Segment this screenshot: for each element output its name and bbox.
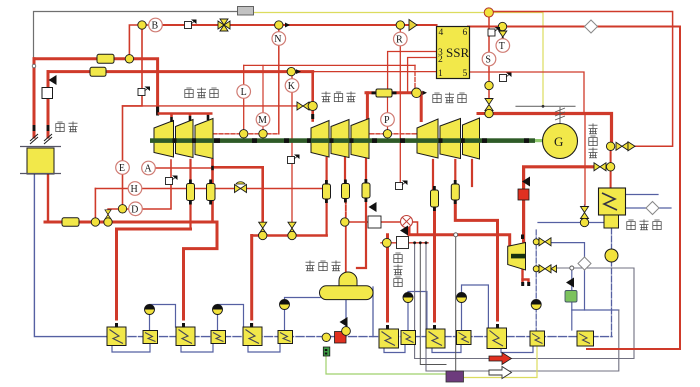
wire SSR pin6 line — [468, 27, 680, 350]
wire K column — [291, 72, 293, 236]
label LP cylinder 低压缸 — [433, 92, 466, 102]
wire main steam line 1 — [34, 59, 158, 112]
node yellow line junction circle — [484, 8, 493, 17]
crossover restrictor box — [372, 89, 397, 97]
gland seal circle and square — [382, 237, 427, 249]
wire aux line A red-arrow path — [415, 243, 634, 359]
node E — [116, 161, 130, 175]
deaerator dome — [339, 272, 357, 286]
LP turbine section3 — [463, 118, 480, 159]
wire condenser drain valve column — [584, 205, 586, 223]
node M — [256, 113, 270, 127]
wire drain heater5 to heater6 — [248, 344, 280, 353]
wire T branch column — [502, 27, 504, 41]
node A junction tick — [211, 166, 214, 170]
wire SSR pin5 line — [468, 72, 584, 114]
check triangle LP bypass — [522, 177, 530, 187]
svg-text:S: S — [485, 55, 491, 66]
MP extraction box sect1 — [323, 180, 331, 203]
MP extraction box sect2 — [342, 180, 350, 203]
wire E column — [123, 25, 143, 209]
wire yellow signal top — [253, 13, 543, 107]
wire deaerator downcomer to feed pump — [345, 299, 347, 331]
node junction main1 — [125, 55, 133, 63]
svg-text:A: A — [144, 164, 152, 175]
node valve circle 2 — [288, 231, 296, 239]
check triangle makeup — [566, 278, 574, 288]
wire B sample riser — [129, 25, 155, 59]
wire pump2 discharge loop — [218, 305, 244, 331]
node yellow-ground junction dot — [542, 105, 545, 108]
plant steam X valve — [341, 202, 413, 236]
wire LP sect2 extraction column — [454, 160, 456, 184]
label plant steam 厂用汽 vertical — [394, 253, 403, 287]
node R — [394, 32, 408, 46]
valve pair gen seal — [606, 142, 635, 151]
wire LP stub left — [478, 112, 489, 115]
label MP cylinder 中压缸 — [322, 91, 356, 101]
diamond pin6 line — [584, 20, 597, 33]
wire heater7 steam pipe — [386, 235, 389, 329]
drain sq K column — [288, 155, 300, 164]
wire BFPT exhaust hook — [521, 270, 523, 283]
wire condenser outlet to valve — [538, 222, 604, 224]
svg-text:P: P — [384, 115, 390, 126]
wire drain heater1 to heater2 — [112, 344, 150, 353]
wire D riser from HP — [141, 160, 171, 209]
wire HP section2 extraction column — [189, 160, 191, 229]
heater 12 — [530, 331, 545, 346]
heater 2 — [143, 331, 158, 344]
wire LP admission column — [488, 13, 490, 102]
wire gland supply to LP junction — [414, 65, 416, 88]
node B — [149, 18, 163, 32]
node A — [142, 161, 156, 175]
wire LP exhaust thick — [524, 167, 595, 241]
MP admission valve circle — [297, 101, 317, 119]
LP turbine section2 — [440, 119, 461, 159]
heater 5 — [243, 327, 262, 346]
node LP valve lower circle — [485, 109, 493, 117]
node pin6 junction — [498, 22, 506, 30]
MP extraction box sect3 — [362, 179, 370, 202]
wire B line top — [156, 24, 437, 26]
drain sq HP column — [166, 176, 178, 185]
wire gen seal valve dashed link — [610, 146, 612, 167]
LP extraction box B — [451, 180, 459, 204]
node valve circle 1 — [259, 231, 267, 239]
valve pair BFPT V2 — [533, 265, 556, 273]
node header junction circle — [454, 233, 458, 237]
wire N column — [278, 25, 280, 134]
node crossover junction circle — [412, 88, 422, 98]
heater 6 — [278, 331, 293, 344]
wire condenser right stub2 with diamond — [625, 207, 671, 209]
svg-text:T: T — [499, 41, 505, 52]
valve X main steam stop — [218, 19, 230, 31]
label generator 发电机 vertical — [589, 123, 598, 157]
label deaerator 除氧器 — [306, 260, 341, 270]
heater 13 — [577, 331, 594, 346]
wire MP exhaust riser — [366, 93, 369, 121]
LP extraction box A — [431, 186, 439, 211]
wire condensate pump column — [611, 228, 613, 337]
pump 3 — [280, 300, 290, 310]
node L — [237, 85, 251, 99]
wire R column — [399, 25, 401, 185]
condensate pump circle — [605, 249, 618, 262]
wire yellow drain heater12 to purple box — [464, 346, 538, 378]
HP turbine section3 — [195, 119, 213, 159]
condenser body — [599, 188, 626, 228]
heater 7 — [379, 329, 399, 348]
wire drain heater11 to heater12 — [501, 346, 533, 353]
pump 5 — [457, 293, 467, 303]
svg-text:2: 2 — [438, 55, 443, 65]
node frame junction circle — [32, 64, 36, 68]
restrictor box main line 1 — [97, 54, 114, 63]
pump 1 — [145, 305, 155, 315]
makeup green box — [565, 291, 577, 303]
wire extraction2 to heater3 — [184, 222, 218, 327]
wire drain heater3 to heater4 — [181, 344, 213, 353]
heater 8 — [401, 331, 416, 345]
wire L column — [243, 65, 245, 133]
wire cold reheat main — [45, 221, 217, 224]
wire reheat riser 2 — [47, 72, 50, 137]
svg-text:H: H — [131, 184, 138, 195]
drain sq with arrow B line — [185, 20, 197, 29]
svg-text:5: 5 — [463, 69, 468, 79]
svg-text:N: N — [274, 34, 281, 45]
wire shaft gland dashes HP-MP — [213, 133, 279, 135]
SSR block — [437, 27, 470, 80]
wire deaerator riser from heater7 side — [372, 287, 374, 337]
svg-text:E: E — [119, 163, 125, 174]
wire LP sect1 extraction column — [432, 160, 434, 190]
triangle into SSR — [409, 20, 417, 31]
wire gland header to MP valve — [123, 105, 300, 107]
wire H column — [94, 189, 96, 223]
drain sq with arrow main line — [138, 87, 150, 96]
node junction B top — [138, 21, 146, 29]
wire main steam HP inlet tip — [156, 108, 159, 114]
shaft main — [150, 138, 543, 143]
wire makeup link y310 — [571, 268, 573, 330]
node K — [285, 79, 299, 93]
pump 2 — [213, 305, 223, 315]
valve D column — [105, 210, 111, 219]
check valve triangle boiler — [49, 75, 57, 85]
wire gland tap middle to purple box — [420, 243, 446, 365]
MP turbine section3 — [351, 119, 369, 159]
wire hot reheat line 2 — [48, 70, 313, 73]
wire D link — [123, 208, 141, 210]
generator ground zigzag — [555, 107, 565, 124]
wire SSR pin1 line — [313, 71, 437, 73]
drain sq pin6 — [488, 27, 500, 36]
wire condenser spray thin — [584, 114, 586, 205]
feedwater pump red — [322, 317, 350, 343]
svg-text:R: R — [396, 35, 403, 46]
valve pair BFPT V1 — [533, 238, 551, 246]
wire main steam riser 1 — [33, 59, 36, 137]
node P — [381, 113, 395, 127]
check valve cold reheat — [235, 182, 247, 193]
LP turbine section1 — [417, 119, 438, 158]
node T — [496, 39, 510, 53]
svg-text:B: B — [152, 21, 159, 32]
wire heater11 steam path — [455, 200, 497, 328]
node D junction circle — [118, 205, 126, 213]
svg-text:1: 1 — [438, 69, 443, 79]
deaerator tank — [320, 286, 374, 300]
svg-text:G: G — [554, 134, 563, 149]
svg-text:M: M — [258, 115, 267, 126]
wire LP admission valve lower — [488, 109, 490, 114]
wire MP sect2 extraction lower — [345, 199, 347, 223]
wire bypass to condenser dashed — [610, 167, 612, 188]
node K junction — [287, 67, 295, 75]
node N — [272, 32, 286, 46]
wire drain heater9 to heater10 — [432, 344, 461, 353]
wire MP sect3 extraction column — [365, 158, 367, 183]
wire pump5 discharge loop — [462, 285, 489, 331]
MP turbine section2 — [331, 120, 349, 158]
boiler riser break marks — [30, 125, 52, 144]
wire MP extraction to deaerator dome — [357, 198, 366, 268]
valve pair bypass — [594, 163, 615, 171]
bypass red square — [518, 189, 529, 200]
node shaft gland circle1 — [240, 130, 248, 138]
node D — [129, 202, 143, 216]
node D valve circle — [104, 218, 112, 226]
HP extraction box2 — [207, 180, 216, 205]
boiler body — [20, 147, 61, 175]
BFPT turbine — [508, 235, 531, 287]
drain sq R column — [396, 181, 408, 190]
node shaft gland circle2 — [259, 130, 267, 138]
wire aux line B white-arrow path — [426, 243, 619, 371]
wire deaerator steam feed — [345, 222, 347, 272]
wire boiler drain dashed — [47, 174, 49, 220]
node junction N — [275, 21, 283, 29]
wire shaft gland dashes MP-LP — [370, 133, 417, 135]
svg-text:K: K — [288, 81, 296, 92]
wire right red feed line — [489, 12, 673, 147]
node H — [128, 182, 142, 196]
node aux junction circle — [570, 266, 574, 270]
MP turbine section1 — [311, 121, 329, 158]
wire SSR pin2 line — [408, 58, 437, 93]
wire pump4 discharge loop — [408, 292, 427, 331]
wire M column — [262, 65, 264, 133]
grey terminal box top — [238, 7, 254, 16]
wire pump6 column heater12 — [535, 230, 537, 331]
wire LP sect3 extraction column — [471, 160, 473, 186]
diamond condenser stub — [646, 201, 659, 214]
valve cold reheat vertical 1 — [259, 222, 267, 234]
wire cold reheat branch thick — [213, 167, 263, 221]
heater 4 — [211, 331, 226, 344]
wire H line — [95, 188, 322, 190]
node LP admission junction — [485, 81, 493, 89]
node H valve circle — [91, 218, 99, 226]
red flow arrow — [489, 353, 512, 365]
wire green sampling line — [326, 356, 446, 375]
wire HP exhaust column — [211, 160, 214, 222]
wire extraction to heater5 — [250, 236, 253, 328]
node shaft gland circle3 — [383, 130, 391, 138]
pump 4 — [403, 293, 413, 303]
svg-text:D: D — [131, 204, 138, 215]
wire MP sect2 extraction column — [344, 158, 346, 184]
wire plant steam header — [409, 226, 510, 245]
HP steam chest header — [158, 114, 213, 118]
HP turbine section1 — [154, 121, 174, 158]
wire crossover to LP — [366, 93, 421, 121]
valve T branch — [499, 31, 507, 43]
node S — [482, 52, 496, 66]
wire condensate main bottom — [34, 174, 107, 337]
wire pump1 discharge loop — [150, 305, 176, 331]
wire makeup horizontal y310 — [572, 309, 619, 311]
flow arrow marks — [285, 23, 427, 96]
heater 10 — [457, 331, 472, 345]
drain square boiler left — [42, 88, 53, 99]
label boiler 锅炉 — [56, 121, 78, 131]
svg-text:L: L — [241, 87, 247, 98]
wire reheat valve1 column — [262, 232, 264, 236]
heater 11 — [487, 328, 507, 349]
heater 3 — [176, 327, 195, 346]
wire plant steam branch line — [346, 222, 418, 234]
instrument circles with letters — [116, 18, 510, 215]
pump 6 — [531, 300, 541, 310]
HP inlet black tips — [172, 115, 209, 122]
valve condenser drain — [581, 207, 589, 219]
white flow arrow — [489, 367, 512, 379]
wire D valve link — [108, 209, 123, 222]
wire A line — [144, 167, 213, 169]
restrictor box cold reheat — [62, 218, 79, 227]
pipe flange ticks at heater inlets — [115, 321, 500, 330]
node condenser drain circle — [580, 218, 588, 226]
label HP cylinder 高压缸 — [185, 87, 218, 97]
wire extraction1 header — [117, 228, 191, 231]
wire MP sect1 extraction column — [326, 158, 328, 236]
node junction R — [396, 21, 404, 29]
wire heater9 steam pipe — [433, 207, 436, 329]
drain sq pin5 — [500, 73, 512, 82]
wire drain heater7 to heater8 — [384, 345, 405, 353]
valve cold reheat vertical 2 — [288, 222, 296, 234]
wire extraction1 to heater1 — [115, 229, 118, 327]
svg-text:6: 6 — [463, 28, 468, 38]
wire LP bypass main — [489, 114, 612, 147]
wire extraction header 2 — [252, 234, 327, 237]
generator G — [543, 124, 578, 159]
wire SSR pin3 line — [388, 52, 437, 90]
svg-text:4: 4 — [439, 28, 444, 38]
svg-text:SSR: SSR — [446, 45, 469, 60]
sampling green box — [323, 347, 330, 356]
label condenser 凝汽器 — [627, 219, 661, 229]
wire aux steam V1 line blue — [551, 243, 585, 310]
wire pump3 discharge loop — [285, 298, 321, 331]
HP extraction box1 — [187, 180, 195, 205]
wire header drain to purple box — [455, 236, 457, 371]
wire condenser right stub1 — [625, 194, 658, 196]
wire MP admission column — [311, 72, 314, 121]
wire generator ground horizontal — [516, 105, 575, 107]
wire grey top frame horizontal — [34, 12, 238, 59]
heater 1 — [107, 327, 126, 346]
wire gland header y65 — [244, 64, 415, 66]
purple box — [446, 371, 464, 382]
HP turbine section2 — [176, 120, 194, 158]
wire gland seal line y242 — [381, 242, 428, 244]
diamond aux line — [578, 257, 591, 270]
restrictor box reheat line — [90, 67, 106, 76]
valve LP admission — [485, 99, 493, 111]
wire P column — [387, 97, 389, 134]
heater 9 — [426, 329, 445, 348]
